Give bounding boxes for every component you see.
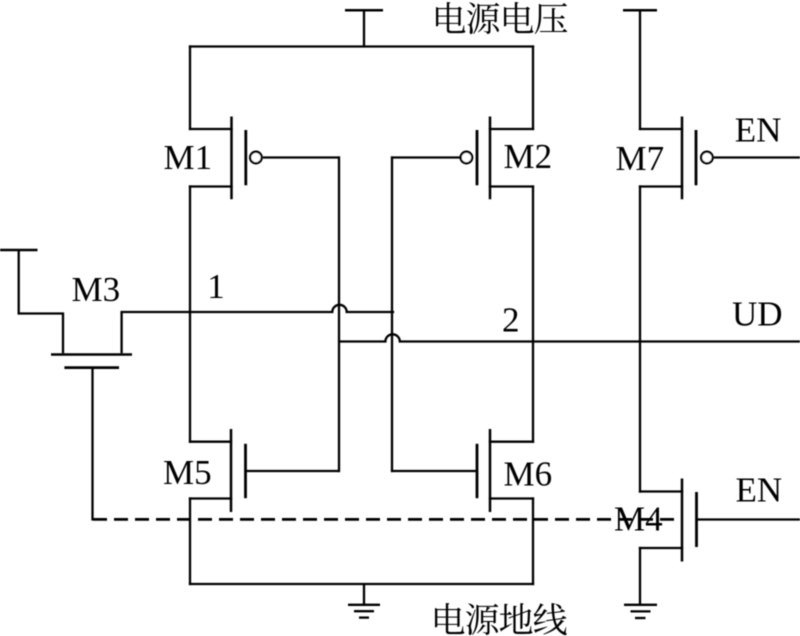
wire ground rail — [190, 583, 533, 585]
power symbol VDD right column — [623, 10, 657, 129]
wire M7 gate to EN — [714, 156, 800, 158]
transistor M7 (PMOS) — [640, 117, 713, 200]
power symbol VDD top center — [345, 10, 383, 46]
transistor M5 (NMOS) — [190, 429, 246, 512]
transistor M4 (NMOS) — [640, 479, 697, 562]
transistor M2 (PMOS) — [461, 117, 533, 200]
wire VDD rail — [190, 45, 533, 47]
ground symbol bottom center — [348, 584, 380, 618]
wire cross-couple riser x339 (M1,M5 gates to node 2) — [338, 158, 340, 472]
svg-text:1: 1 — [207, 267, 225, 306]
svg-text:EN: EN — [735, 111, 782, 150]
wire cross-couple riser x392 (M2,M6 gates to node 1) — [391, 158, 393, 472]
ground symbol right — [624, 605, 657, 618]
transistor M1 (PMOS) — [190, 117, 262, 200]
svg-text:UD: UD — [732, 295, 783, 334]
transistor M3 (MOS capacitor, rotated) — [0, 250, 132, 519]
wire rail to M2 source — [532, 47, 534, 130]
svg-text:M6: M6 — [504, 455, 553, 494]
wire M1 drain to M5 drain — [189, 187, 191, 442]
label 电源地线 — [435, 603, 567, 635]
node 1 wire with hop over riser x339 — [122, 305, 393, 312]
node 2 wire with hop over riser x392 — [339, 334, 800, 341]
svg-text:2: 2 — [502, 301, 520, 340]
transistor M6 (NMOS) — [477, 429, 533, 512]
wire M6 source to ground rail — [532, 499, 534, 585]
svg-text:M2: M2 — [504, 137, 553, 176]
svg-text:M7: M7 — [616, 139, 665, 178]
svg-text:EN: EN — [736, 471, 783, 510]
wire rail to M1 source — [189, 47, 191, 130]
wire M1 gate to node 2 riser — [263, 156, 340, 158]
svg-text:M3: M3 — [72, 270, 121, 309]
wire M2 gate to node 1 riser — [391, 156, 460, 158]
svg-text:M5: M5 — [163, 453, 212, 492]
svg-text:M4: M4 — [614, 500, 663, 539]
wire M5 source to ground rail — [189, 499, 191, 585]
dashed bulk line (M3 gate to M4) — [93, 518, 679, 521]
wire M2 drain to M6 drain — [532, 187, 534, 442]
wire M6 gate to riser x392 — [391, 470, 477, 472]
wire M4 gate to EN — [697, 518, 800, 520]
wire M7 drain to M4 drain (UD column) — [639, 187, 641, 492]
svg-text:M1: M1 — [164, 138, 213, 177]
wire M5 gate to riser x339 — [246, 470, 341, 472]
label 电源电压 — [436, 2, 567, 34]
wire M4 source to ground — [639, 548, 641, 604]
